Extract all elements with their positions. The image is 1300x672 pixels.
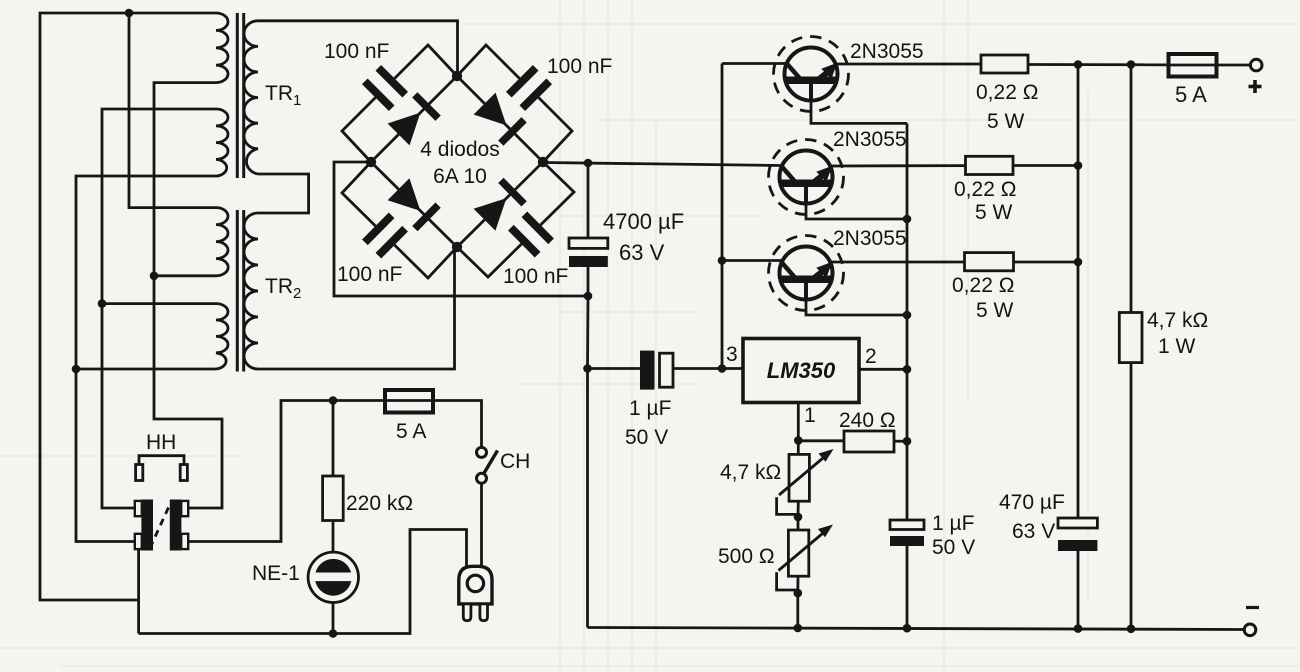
node: bleeder rail top <box>1127 60 1136 69</box>
wire: base rail down to LM350 output node <box>906 123 909 441</box>
wire: T3 base to base rail <box>806 283 907 315</box>
svg-text:CH: CH <box>500 450 530 473</box>
wire: output 1uF bottom lead to negative rail <box>906 545 909 628</box>
capacitor 1uF 50V output (polarized, vertical) <box>890 520 924 546</box>
transformer TR2 core <box>237 210 243 372</box>
node: T2 base on base rail <box>903 215 912 224</box>
svg-text:5 A: 5 A <box>1175 82 1207 107</box>
wire: fuse to plus terminal <box>1217 64 1251 67</box>
fuse F2 5A output <box>1169 54 1217 77</box>
wire: pot 500 wiper hook <box>777 572 798 590</box>
selector HH socket left contact <box>135 500 153 551</box>
node: LM350 output pin 2 <box>903 365 912 374</box>
transformer TR1 secondary winding <box>244 21 258 174</box>
wire: negative bottom rail <box>588 628 1245 630</box>
diode D3 bottom-left (anode at left node) <box>388 178 439 228</box>
neon lamp NE-1 <box>308 552 358 602</box>
svg-text:0,22 Ω: 0,22 Ω <box>976 81 1038 104</box>
svg-text:63 V: 63 V <box>1012 520 1055 543</box>
transformer TR2 primary winding B <box>216 304 228 369</box>
node: 4700uF top at DC plus rail <box>584 159 593 168</box>
node: adjust pin junction <box>794 436 803 445</box>
svg-text:HH: HH <box>146 431 176 454</box>
wire: TR1 secondary top to bridge top node <box>258 21 458 76</box>
svg-text:0,22 Ω: 0,22 Ω <box>952 274 1014 297</box>
node: bridge top <box>452 71 462 81</box>
capacitor 100nF bottom-right branch <box>457 162 574 277</box>
node: 240 ohm to output rail <box>903 437 912 446</box>
regulator U1 LM350 <box>743 339 859 403</box>
selector HH jumper header <box>136 456 188 481</box>
node: below 500 ohm pot <box>794 589 803 598</box>
resistor 220k <box>323 476 344 521</box>
svg-text:220 kΩ: 220 kΩ <box>346 492 413 515</box>
mains plug P1 <box>459 566 492 620</box>
transistor Q1 2N3055 <box>774 37 849 112</box>
node: plus rail top row1 <box>1074 60 1083 69</box>
wire: mains bottom rail (left section) <box>139 530 467 634</box>
svg-text:1 W: 1 W <box>1158 335 1196 358</box>
svg-text:2N3055: 2N3055 <box>833 227 907 250</box>
wire: 0.22 ohm row2 to vertical rail <box>1013 164 1078 167</box>
wire: pot 4.7k top lead <box>797 440 800 454</box>
node: DC minus meets 4700uF bottom <box>584 292 593 301</box>
resistor 4.7k 1W bleeder <box>1119 313 1142 363</box>
wire: output 1uF top lead <box>906 442 909 521</box>
svg-text:NE-1: NE-1 <box>252 562 300 585</box>
node: bleeder at negative rail <box>1127 625 1136 634</box>
wire: pot 4.7k wiper hook <box>777 497 798 514</box>
potentiometer 4.7k (rheostat) <box>779 449 834 501</box>
transformer TR1 primary winding B <box>216 109 228 176</box>
svg-text:LM350: LM350 <box>767 358 836 383</box>
node: 470uF at negative rail <box>1074 624 1083 633</box>
wire: 220k resistor top lead <box>332 401 335 477</box>
wire: NE-1 bottom lead to rail <box>332 603 335 634</box>
wire: DC minus vertical through 4700uF bottom down to negative rail <box>586 267 589 628</box>
wire: 470uF bottom lead to negative rail <box>1077 551 1080 629</box>
svg-text:6A 10: 6A 10 <box>433 165 487 188</box>
svg-text:50 V: 50 V <box>932 536 975 559</box>
node: TR2 primary B bottom junction <box>72 365 81 374</box>
terminal minus output <box>1244 624 1256 636</box>
node: TR2 primary B top junction <box>98 299 107 308</box>
transistor Q3 2N3055 <box>769 236 844 311</box>
node: T3 collector on rail <box>718 256 727 265</box>
wire: fuse to CH switch <box>433 401 482 448</box>
svg-text:3: 3 <box>726 343 738 366</box>
resistor 0.22 ohm row3 <box>965 253 1014 271</box>
wire: TR2 primary B top to junction <box>102 302 216 305</box>
wire: input bypass 1uF left lead <box>588 367 642 370</box>
diode D1 top-left (anode at left node) <box>388 95 439 145</box>
wire: collector rail T1/T3 down to LM350 input node <box>721 64 724 369</box>
wire: LM350 pin 1 adjust lead <box>797 402 800 440</box>
wire: TR2 secondary bottom to bridge bottom node <box>258 247 455 369</box>
wire: 0.22 ohm row3 to vertical rail <box>1014 261 1079 264</box>
resistor 0.22 ohm row1 <box>981 55 1028 73</box>
wire: TR2 primary A bottom to junction <box>154 274 216 277</box>
wire: T2 base to base rail <box>806 187 907 219</box>
wire: 0.22 ohm to plus rail and fuse <box>1028 63 1169 66</box>
transformer TR1 primary winding A <box>216 13 228 83</box>
wire: 240 ohm to output node <box>894 440 907 443</box>
capacitor 1uF 50V input (polarized, horizontal) <box>640 351 673 390</box>
wire: CH switch to plug <box>480 484 483 568</box>
svg-text:1: 1 <box>804 404 816 427</box>
diode D2 top-right (cathode at right node) <box>474 93 524 144</box>
node: row3 at plus rail <box>1074 258 1083 267</box>
potentiometer 500 ohm (rheostat) <box>779 525 834 577</box>
wire: T3 emitter to 0.22 ohm <box>829 261 965 264</box>
wire: pot 500 top lead <box>797 517 800 530</box>
svg-text:5 W: 5 W <box>987 110 1025 133</box>
svg-text:0,22 Ω: 0,22 Ω <box>954 178 1016 201</box>
wire: T2 emitter to 0.22 ohm <box>829 164 966 167</box>
wire: 4700uF top lead <box>587 163 590 238</box>
wire: series link TR1 secondary bottom to TR2 secondary top <box>258 174 309 213</box>
resistor 0.22 ohm row2 <box>966 156 1014 174</box>
svg-text:100 nF: 100 nF <box>324 40 389 63</box>
wire: mains top feed to TR1 primary A top <box>40 13 216 600</box>
node: top rail / TR2 primary A feed <box>125 9 134 18</box>
svg-text:1 µF: 1 µF <box>629 397 671 420</box>
wire: adjust node to 240 ohm <box>798 439 844 442</box>
capacitor 100nF top-right branch <box>457 45 572 162</box>
node: adjust chain at negative rail <box>794 624 803 633</box>
svg-text:100 nF: 100 nF <box>337 263 402 286</box>
svg-text:100 nF: 100 nF <box>503 265 568 288</box>
transistor Q2 2N3055 <box>769 140 844 215</box>
wire: vertical drop from HH left-bar bottom pin to mains bottom rail <box>137 548 140 634</box>
capacitor 4700uF 63V <box>569 238 608 267</box>
wire: pot 4.7k bottom lead <box>797 501 800 517</box>
wire: TR2 primary B bottom to junction <box>76 368 216 371</box>
svg-text:240 Ω: 240 Ω <box>839 409 896 432</box>
wire: T1 collector lead <box>722 62 788 65</box>
fuse F1 5A mains <box>385 390 433 413</box>
wire: 4.7k 1W bottom lead to negative rail <box>1130 363 1133 629</box>
svg-text:500 Ω: 500 Ω <box>718 545 775 568</box>
wire: TR1 primary B bottom down left side <box>76 176 216 542</box>
wire: adjust chain to negative rail <box>796 593 799 628</box>
label plus sign <box>1249 80 1262 93</box>
svg-text:2N3055: 2N3055 <box>833 128 907 151</box>
svg-text:5 W: 5 W <box>975 201 1013 224</box>
node: output cap at negative rail <box>903 624 912 633</box>
svg-text:4 diodos: 4 diodos <box>420 138 499 161</box>
switch CH <box>477 447 498 483</box>
wire: TR1 primary B top to HH left-bar top pin <box>102 109 216 508</box>
node: T3 base on base rail <box>903 311 912 320</box>
terminal plus output <box>1250 59 1262 71</box>
node: bridge left <box>366 157 376 167</box>
wire: input bypass 1uF right lead to LM350 pin 3 <box>673 367 743 370</box>
wire: T1 emitter to 0.22 ohm <box>834 63 981 66</box>
wire: T1 base down and across to base rail <box>811 84 907 123</box>
wire: plus vertical rail down to 470uF <box>1077 65 1080 519</box>
selector HH dashed link <box>150 502 171 548</box>
node: fuse line / 220k top <box>329 396 338 405</box>
node: between pots <box>794 513 803 522</box>
wire: HH right-bar bottom pin to fuse line <box>187 401 385 542</box>
node: bridge bottom <box>452 242 462 252</box>
wire: bridge right node DC plus rail to T2 collector <box>543 163 781 166</box>
transformer TR1 core <box>237 13 243 178</box>
wire: T3 collector lead <box>722 259 782 262</box>
node: bridge right <box>538 157 548 167</box>
capacitor 100nF bottom-left branch <box>342 162 457 278</box>
node: DC minus / input bypass cap <box>583 364 592 373</box>
svg-text:4,7 kΩ: 4,7 kΩ <box>1147 309 1208 332</box>
wire: TR2 primary A top feed from top rail dot <box>129 13 216 208</box>
transformer TR2 secondary winding <box>244 213 258 369</box>
label minus sign <box>1246 606 1259 609</box>
svg-text:2N3055: 2N3055 <box>850 40 924 63</box>
resistor 240 ohm <box>844 431 894 452</box>
svg-text:4700 µF: 4700 µF <box>603 209 684 234</box>
diode D4 bottom-right (cathode at right node) <box>474 180 524 230</box>
svg-text:63 V: 63 V <box>619 240 665 265</box>
selector HH socket right contact <box>170 500 188 551</box>
svg-text:5 A: 5 A <box>396 420 426 443</box>
svg-text:1 µF: 1 µF <box>932 512 974 535</box>
wire: bridge left node (DC minus) down and across to filter cap bottom <box>334 162 588 296</box>
capacitor 470uF 63V <box>1058 518 1097 551</box>
node: LM350 input pin 3 <box>718 364 727 373</box>
node: TR2 primary A bottom junction <box>150 272 159 281</box>
wire: 220k resistor bottom lead to NE-1 <box>332 521 335 553</box>
wire: bleeder rail from plus node down to 4.7k 1W <box>1130 65 1133 313</box>
svg-text:4,7 kΩ: 4,7 kΩ <box>720 461 781 484</box>
wire: LM350 pin 2 output lead <box>859 368 907 371</box>
bridge rectifier diamond <box>371 76 543 247</box>
node: row2 at plus rail <box>1074 161 1083 170</box>
svg-text:470 µF: 470 µF <box>999 491 1065 514</box>
svg-text:100 nF: 100 nF <box>547 55 612 78</box>
capacitor 100nF top-left branch <box>342 45 457 162</box>
svg-text:2: 2 <box>865 345 877 368</box>
svg-text:50 V: 50 V <box>625 426 668 449</box>
wire: pot 500 bottom lead <box>796 576 799 593</box>
transformer TR2 primary winding A <box>216 208 228 276</box>
wire: TR1 primary A bottom to selector chain <box>154 83 222 508</box>
node: NE-1 bottom rail <box>329 629 338 638</box>
svg-text:5 W: 5 W <box>976 299 1014 322</box>
